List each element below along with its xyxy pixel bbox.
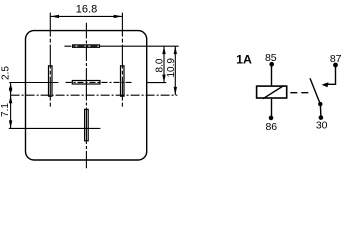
- wire pin 85 to coil: [271, 64, 273, 85]
- middle pin slot: [72, 81, 100, 85]
- middle slot centerline tick to 8.0 dimension: [147, 82, 166, 84]
- fixed contact arrowhead 87: [322, 82, 329, 87]
- svg-text:8.0: 8.0: [154, 58, 165, 72]
- switch blade (movable contact): [310, 78, 320, 104]
- svg-text:2.5: 2.5: [0, 66, 11, 80]
- left dimension line x=10.6: [10, 83, 12, 129]
- arrow right of 16.8: [114, 15, 123, 18]
- top slot horizontal centerline y=46.15: [64, 45, 101, 47]
- relay body outline: [26, 31, 147, 160]
- arrow up 10.9: [174, 46, 177, 54]
- armature link (dashed): [290, 92, 310, 94]
- svg-text:16.8: 16.8: [76, 4, 97, 16]
- arrow down 2.5: [9, 88, 12, 95]
- dimension 16.8 extension line right / pin slot centerline x=122.4: [121, 13, 123, 108]
- blade pivot dot: [318, 102, 322, 106]
- dimension line 16.8: [50, 15, 122, 17]
- pin 30 terminal dot: [319, 115, 324, 120]
- arrow up 8.0: [162, 46, 165, 54]
- pin 85 terminal dot: [269, 62, 274, 67]
- bottom pin slot: [85, 109, 89, 140]
- pin 86 terminal dot: [269, 116, 274, 121]
- vertical centerline of center slots x=86.4: [85, 23, 87, 168]
- dimension 16.8 extension line left / pin slot centerline x=50.3: [49, 13, 51, 108]
- svg-text:7.1: 7.1: [0, 103, 11, 117]
- svg-text:10.9: 10.9: [166, 58, 177, 78]
- arrow down 7.1: [9, 120, 12, 128]
- left pin slot: [49, 66, 53, 96]
- dimension line 8.0 x=164: [163, 46, 165, 82]
- svg-text:30: 30: [316, 120, 328, 132]
- relay coil K1: [257, 86, 287, 98]
- wire pivot to pin 30: [319, 104, 322, 118]
- arrow up 2.5: [9, 83, 12, 91]
- arrow down 8.0: [162, 75, 165, 83]
- side slots row centerline y=94.8: [11, 94, 178, 96]
- 7.1 bottom extension line: [9, 127, 101, 129]
- top pin slot: [73, 45, 100, 47]
- middle slot centerline y=82.4: [66, 81, 134, 83]
- middle slot centerline tick to 2.5 dimension: [9, 82, 58, 84]
- wire coil to pin 86: [271, 99, 273, 118]
- arrow up 7.1: [9, 95, 12, 103]
- coil diagonal: [263, 86, 284, 99]
- svg-text:1A: 1A: [236, 53, 252, 67]
- svg-text:86: 86: [265, 121, 277, 133]
- pin 87 terminal dot: [333, 63, 338, 68]
- right pin slot: [121, 66, 125, 96]
- arrow left of 16.8: [50, 15, 59, 18]
- wire pin 87 to fixed contact: [324, 65, 336, 84]
- arrow down 10.9: [174, 87, 177, 95]
- top slot centerline extension to right dimensions: [101, 45, 179, 47]
- dimension line 10.9 x=175.3: [174, 46, 176, 95]
